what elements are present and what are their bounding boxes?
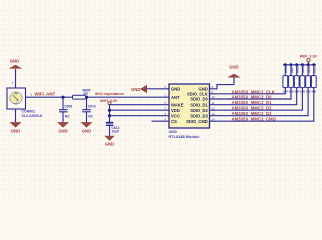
power port WIFI_3.3V (top right) [300, 54, 318, 64]
svg-text:GND: GND [171, 86, 180, 91]
svg-text:C610: C610 [88, 104, 96, 108]
svg-text:CON601: CON601 [22, 110, 36, 114]
ground GND (module right, above) [227, 65, 241, 85]
wire connector top stem [14, 69, 16, 88]
pin numbers right [212, 85, 215, 121]
pin numbers left [165, 85, 167, 121]
wire SDIO_D2 [210, 88, 303, 111]
svg-text:C608: C608 [64, 104, 72, 108]
svg-text:GND: GND [11, 128, 21, 133]
resistor R610 [306, 63, 312, 93]
svg-text:WAKE: WAKE [171, 102, 184, 107]
wire WIFI_ANT [26, 96, 170, 98]
ground GND (left of module) [131, 85, 147, 94]
svg-text:SDIO_CLK: SDIO_CLK [187, 91, 208, 96]
svg-text:10uF: 10uF [111, 129, 119, 133]
ground under C610 [81, 122, 93, 133]
resistor R611 [311, 63, 317, 93]
svg-text:VDD: VDD [171, 108, 180, 113]
module U600 RTL8188 [169, 84, 210, 128]
svg-text:SDIO_D1: SDIO_D1 [190, 102, 208, 107]
wire CS stub [152, 120, 170, 122]
svg-text:GND: GND [131, 87, 141, 92]
svg-text:WIFI_3.3V: WIFI_3.3V [300, 54, 318, 58]
node VCC tap [108, 114, 111, 117]
wire SDIO_D0 [210, 88, 292, 99]
svg-text:R609: R609 [301, 66, 305, 73]
svg-text:50Ω impedance: 50Ω impedance [95, 91, 125, 96]
svg-text:GND: GND [58, 128, 68, 133]
resistor R607 [288, 63, 294, 93]
svg-text:R607: R607 [290, 66, 294, 73]
wire SDIO_D1 [210, 88, 297, 105]
svg-text:AM335X_MMC2_D0: AM335X_MMC2_D0 [232, 95, 273, 100]
svg-text:R611: R611 [313, 66, 317, 73]
svg-text:0R: 0R [84, 92, 89, 96]
wire SDIO_CLK [210, 88, 286, 94]
svg-text:AM335X_MMC2_D1: AM335X_MMC2_D1 [232, 100, 273, 105]
svg-text:AM335X_MMC2_D2: AM335X_MMC2_D2 [232, 106, 273, 111]
svg-text:U600: U600 [169, 130, 177, 134]
svg-text:R606: R606 [284, 66, 288, 73]
svg-text:SDIO_D3: SDIO_D3 [190, 113, 208, 118]
ground GND (top-left, above CON601) [9, 58, 23, 68]
svg-text:GND: GND [198, 86, 207, 91]
resistor R609 [300, 63, 306, 93]
svg-text:GND: GND [10, 58, 20, 63]
svg-text:NC: NC [88, 114, 93, 118]
svg-text:R610: R610 [307, 66, 311, 73]
svg-text:SDIO_CMD: SDIO_CMD [186, 119, 208, 124]
wire connector bottom stem [14, 109, 16, 122]
node VDD tap [108, 109, 111, 112]
svg-text:VCC: VCC [171, 113, 180, 118]
ground under C608 [57, 122, 69, 133]
svg-text:AM335X_MMC2_D3: AM335X_MMC2_D3 [232, 111, 273, 116]
wire VDD row [110, 109, 170, 111]
wire WAKE row [110, 104, 170, 106]
resistor R605 [73, 95, 86, 99]
node C608 tap [61, 96, 64, 99]
capacitor C608 [59, 97, 72, 122]
svg-text:SDIO_D0: SDIO_D0 [190, 97, 208, 102]
capacitor C610 [82, 97, 96, 122]
svg-text:SDIO_D2: SDIO_D2 [190, 108, 208, 113]
resistor R608 [294, 63, 300, 93]
wire pull-up rail [283, 64, 316, 66]
wire SDIO_D3 [210, 88, 309, 116]
node C610 tap [85, 96, 88, 99]
svg-text:GND: GND [229, 65, 239, 70]
resistor R606 [283, 63, 289, 93]
ground under C612 [104, 136, 115, 147]
wire VCC row [110, 115, 170, 117]
svg-text:AM335X_MMC2_CLK: AM335X_MMC2_CLK [232, 89, 275, 94]
svg-text:NC: NC [65, 114, 70, 118]
power port WIFI_3.3V (left) [100, 99, 118, 105]
capacitor C612 [106, 123, 119, 136]
svg-text:RTL8188 Module: RTL8188 Module [169, 134, 201, 139]
wire power vertical [108, 105, 110, 124]
connector CON601 [7, 88, 26, 109]
svg-text:ANT: ANT [171, 95, 180, 100]
svg-text:WIFI_ANT: WIFI_ANT [35, 91, 56, 96]
wire module left GND pin [147, 88, 169, 90]
svg-text:AM335X_MMC2_CMD: AM335X_MMC2_CMD [232, 117, 276, 122]
svg-text:SL2-24000-8: SL2-24000-8 [22, 114, 42, 118]
ground under CON601 [10, 122, 22, 133]
wire module right GND to ground [210, 85, 235, 89]
svg-text:CS: CS [171, 119, 177, 124]
svg-text:R608: R608 [296, 66, 300, 73]
svg-text:GND: GND [105, 142, 115, 147]
wire SDIO_CMD [210, 88, 314, 122]
svg-text:GND: GND [82, 128, 92, 133]
